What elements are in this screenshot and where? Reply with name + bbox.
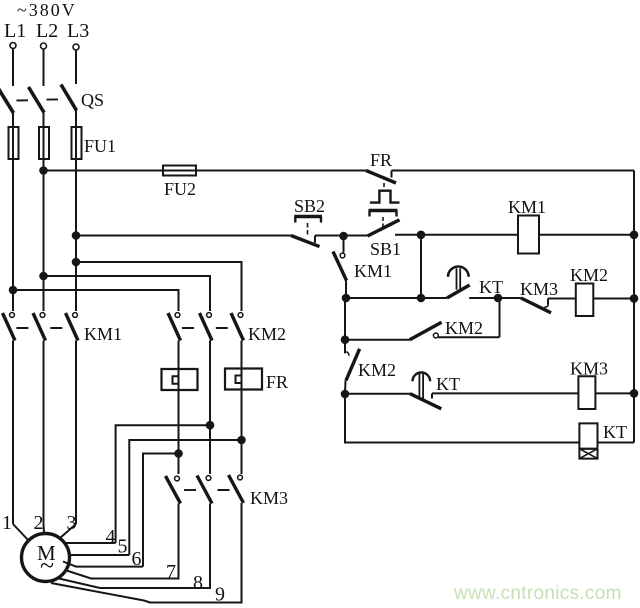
label FR	[370, 150, 392, 170]
label KT coil	[603, 422, 627, 442]
label 6	[131, 548, 141, 570]
terminal L3	[73, 44, 79, 50]
wire L2 FU1 to KM1	[42, 159, 44, 311]
FR reset symbol	[370, 191, 400, 203]
label KM3 NC	[520, 279, 558, 299]
svg-text:4: 4	[105, 526, 115, 548]
contact KM1 pole2	[33, 313, 46, 341]
wire FR to right rail	[392, 170, 635, 172]
svg-text:~: ~	[40, 551, 54, 580]
node SB1 right riser	[418, 232, 425, 239]
label 5	[117, 535, 127, 557]
coil KT delay element	[579, 449, 597, 459]
label FU2	[164, 179, 196, 199]
contact KM1 aux hook	[340, 253, 345, 258]
svg-text:L1: L1	[4, 20, 26, 42]
terminal L1	[10, 42, 16, 48]
label KM1 aux	[354, 261, 392, 281]
contact KM3 pole3	[228, 475, 243, 503]
contact KM2 linkage dashed	[182, 327, 228, 329]
svg-text:FU2: FU2	[164, 179, 196, 199]
svg-text:FR: FR	[266, 372, 288, 392]
node rail row B	[631, 295, 638, 302]
wire riser SB1 to row B	[420, 235, 422, 298]
svg-text:KT: KT	[436, 374, 460, 394]
switch QS pole 2 blade	[29, 87, 45, 113]
label KT row C	[436, 374, 460, 394]
wire left rail row B to KM2NO row	[344, 298, 346, 340]
wire branch L2 to KM2 pole2	[43, 276, 210, 311]
wire lead7	[65, 503, 179, 578]
label 4	[105, 526, 115, 548]
contact KM1 aux blade	[333, 252, 347, 281]
label 9	[215, 583, 225, 605]
wire KM3 coil to rail	[595, 392, 634, 394]
label KM2 NO	[445, 318, 483, 338]
wire lead6	[143, 453, 179, 566]
wire QS to FU1 pole2	[43, 112, 45, 127]
contact KM3 pole2	[197, 475, 212, 503]
motor tilde	[40, 551, 54, 580]
wire KM2 NO left	[345, 339, 410, 341]
svg-text:9: 9	[215, 583, 225, 605]
node rail row C	[631, 390, 638, 397]
wire branch L1 to KM2 pole1	[13, 290, 179, 311]
wire row B left segment	[346, 297, 447, 299]
contact KT NC delay stems	[457, 268, 461, 289]
label QS	[81, 90, 104, 110]
button SB2 dashed stem	[307, 223, 309, 235]
contact KM2 NC hook	[345, 352, 349, 356]
node row B left	[343, 295, 350, 302]
contact FR NC right tick	[391, 171, 393, 178]
wire riser KM2 NO to row B	[498, 298, 500, 337]
heater FR phase3	[225, 340, 262, 474]
wire right rail	[633, 171, 635, 443]
wire lead9	[51, 503, 242, 603]
terminal L2	[41, 43, 47, 49]
wire lead5 stub	[70, 554, 129, 556]
wire SB1 right to KM1 coil	[395, 234, 518, 236]
contact KM1 linkage dashed	[16, 327, 62, 329]
svg-text:KM1: KM1	[508, 197, 546, 217]
wire L1 FU1 to KM1	[12, 159, 14, 311]
button SB1 dashed stem	[382, 217, 384, 228]
button SB2 cap	[294, 216, 322, 222]
node L3 branch	[73, 259, 80, 266]
label 8	[193, 572, 203, 594]
coil KT	[579, 423, 597, 448]
label 7	[166, 561, 176, 583]
label SB1	[370, 239, 401, 259]
label L2	[36, 20, 58, 42]
contact SB1 NO blade	[368, 220, 400, 236]
label KM2 coil	[570, 265, 608, 285]
contact KM2 NO hook	[433, 333, 438, 338]
wire L2 drop to QS	[43, 49, 45, 86]
contact KM3 pole1	[165, 476, 180, 504]
wire lead4 stub	[66, 542, 116, 544]
wire KM1 pole3 down	[75, 340, 77, 524]
contact KM1 pole1	[2, 313, 15, 341]
node lead6 tap	[175, 450, 182, 457]
label FU1	[84, 136, 116, 156]
wire L3 FU1 to KM1	[75, 159, 77, 311]
svg-text:5: 5	[117, 535, 127, 557]
node rail row A	[631, 232, 638, 239]
coil KM2	[576, 284, 594, 317]
wire node to KM3 contact	[498, 297, 521, 299]
label KM3 coil	[570, 359, 608, 379]
svg-text:KM2: KM2	[570, 265, 608, 285]
wire lead4	[116, 425, 210, 543]
wire L1 drop to QS	[12, 49, 14, 86]
node row B mid	[495, 295, 502, 302]
svg-text:KM2: KM2	[248, 324, 286, 344]
wire KM2 NO right	[438, 336, 500, 338]
coil KM3	[578, 376, 595, 409]
wire left rail to bottom	[345, 394, 579, 443]
wire SB2 to node	[315, 234, 344, 236]
wire L3 control feed	[73, 232, 291, 239]
motor M circle	[21, 533, 69, 581]
wire KM1 aux to row B	[345, 281, 347, 299]
node L2 FU2 tap	[40, 167, 47, 174]
wire node to SB1	[344, 235, 368, 237]
svg-text:QS: QS	[81, 90, 104, 110]
contact KT NO delay blade	[410, 394, 441, 409]
wire KT NO to KM3 coil	[432, 392, 578, 394]
contact KT NC delay arc	[448, 267, 469, 277]
label L1	[4, 20, 26, 42]
contact KM1 pole3	[65, 313, 78, 341]
label KM1 coil	[508, 197, 546, 217]
coil KM1	[518, 216, 539, 254]
fuse FU2	[163, 165, 196, 175]
contact KM2 NO blade	[410, 322, 442, 340]
node lead5 tap	[238, 437, 245, 444]
svg-text:8: 8	[193, 572, 203, 594]
node lead4 tap	[207, 422, 214, 429]
label KM2 main	[248, 324, 286, 344]
label KM1 main	[84, 324, 122, 344]
svg-text:KM2: KM2	[445, 318, 483, 338]
wire KM2 NC to row C	[344, 380, 347, 394]
svg-text:6: 6	[131, 548, 141, 570]
wire KM2 coil to rail	[593, 298, 634, 300]
node L1 branch	[10, 287, 17, 294]
fuse FU1 pole1	[9, 127, 19, 159]
contact KM3 NC tick	[544, 299, 548, 308]
wire KM1 pole2 down	[42, 340, 44, 524]
fuse FU1 pole3	[72, 127, 82, 159]
svg-text:www.cntronics.com: www.cntronics.com	[453, 583, 622, 604]
wire lead6 stub	[63, 561, 143, 566]
svg-text:KM2: KM2	[358, 360, 396, 380]
svg-text:2: 2	[33, 512, 43, 534]
svg-text:7: 7	[166, 561, 176, 583]
contact KT NC delay blade	[447, 285, 470, 298]
wire QS to FU1 pole1	[12, 112, 14, 127]
motor M letter	[37, 541, 56, 565]
fuse FU1 pole2	[39, 127, 49, 159]
wire KT to node	[469, 297, 498, 299]
wire FU2 to FR contact	[196, 169, 366, 171]
wire QS to FU1 pole3	[75, 110, 77, 127]
label 1	[2, 512, 12, 534]
node row B riser	[418, 295, 425, 302]
wire KM1 pole1 down	[12, 340, 14, 524]
contact KM3 NC blade	[521, 298, 551, 313]
svg-text:L2: L2	[36, 20, 58, 42]
contact KT NO delay stems	[419, 374, 423, 399]
label ~380V	[17, 0, 77, 20]
wire motor lead1	[13, 524, 29, 541]
label L3	[67, 20, 89, 42]
button SB1 cap	[369, 211, 398, 217]
svg-text:L3: L3	[67, 20, 89, 42]
label FR main	[266, 372, 288, 392]
wire motor lead2	[42, 524, 45, 533]
FR actuator dashed link	[383, 183, 385, 191]
wire KT coil to rail	[597, 442, 634, 444]
label KM2 NC	[358, 360, 396, 380]
contact FR NC blade	[366, 171, 396, 184]
contact KM2 NC blade	[346, 349, 360, 381]
contact KT NO tick	[431, 393, 433, 398]
contact SB2 NC blade	[291, 235, 320, 246]
wire motor lead3	[60, 524, 76, 538]
wire lead8	[59, 503, 210, 588]
wire row C left	[345, 393, 410, 395]
contact KM1 aux stem	[343, 236, 345, 253]
switch QS pole 3 blade	[61, 84, 77, 110]
svg-text:~380V: ~380V	[17, 0, 77, 20]
node SB2-SB1 junction	[340, 233, 347, 240]
label 3	[66, 512, 76, 534]
svg-text:FR: FR	[370, 150, 392, 170]
wire branch L3 to KM2 pole3	[76, 262, 242, 311]
watermark	[453, 583, 622, 604]
svg-text:SB1: SB1	[370, 239, 401, 259]
svg-text:KT: KT	[603, 422, 627, 442]
contact KM2 pole2	[199, 313, 212, 341]
label 2	[33, 512, 43, 534]
svg-text:SB2: SB2	[294, 196, 325, 216]
switch QS linkage dashed	[17, 99, 59, 100]
node KM2 NO row left	[342, 336, 349, 343]
node L2 branch	[40, 273, 47, 280]
svg-text:3: 3	[66, 512, 76, 534]
wire lead5	[129, 440, 241, 555]
svg-text:FU1: FU1	[84, 136, 116, 156]
switch QS pole 1 blade	[0, 88, 14, 113]
label SB2	[294, 196, 325, 216]
contact KM2 pole3	[231, 313, 244, 341]
node row C left	[342, 391, 349, 398]
contact KT NO delay arc	[412, 373, 430, 382]
svg-text:1: 1	[2, 512, 12, 534]
heater FR phase1	[161, 340, 197, 474]
wire KM2 pole2 down	[209, 340, 211, 474]
svg-text:KM1: KM1	[354, 261, 392, 281]
svg-text:KM1: KM1	[84, 324, 122, 344]
wire L3 drop to QS	[75, 50, 77, 84]
wire KM1 coil to rail	[539, 234, 634, 236]
contact KM2 pole1	[168, 313, 181, 341]
contact SB2 NC right tick	[314, 235, 316, 242]
label KM3 main	[250, 488, 288, 508]
svg-text:KM3: KM3	[250, 488, 288, 508]
svg-text:KM3: KM3	[520, 279, 558, 299]
contact KM2 NC stem	[344, 340, 346, 354]
wire FU2 feed	[44, 169, 164, 171]
contact KM3 linkage dashed	[184, 489, 230, 491]
label KT row B	[479, 277, 503, 297]
wire KM3 NC to KM2 coil	[548, 298, 576, 300]
